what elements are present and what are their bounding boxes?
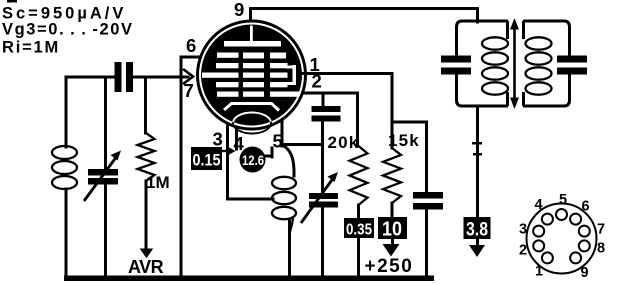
- svg-text:0.35: 0.35: [346, 222, 372, 239]
- svg-text:6: 6: [581, 199, 589, 215]
- svg-text:1: 1: [535, 264, 543, 280]
- svg-text:20k: 20k: [328, 133, 360, 152]
- svg-text:3.8: 3.8: [466, 220, 488, 241]
- svg-text:7: 7: [184, 80, 194, 101]
- svg-text:15k: 15k: [388, 131, 420, 150]
- svg-text:AVR: AVR: [128, 257, 164, 277]
- svg-text:8: 8: [597, 241, 605, 257]
- svg-text:10: 10: [382, 219, 402, 241]
- svg-text:9: 9: [580, 265, 588, 281]
- svg-text:9: 9: [234, 0, 244, 20]
- svg-text:3: 3: [213, 129, 223, 150]
- svg-text:0.15: 0.15: [193, 151, 221, 170]
- svg-text:+250: +250: [365, 256, 414, 277]
- svg-text:Ri=1M: Ri=1M: [2, 39, 60, 57]
- svg-text:6: 6: [186, 35, 196, 56]
- svg-text:5: 5: [273, 131, 283, 152]
- svg-text:1M: 1M: [146, 173, 170, 192]
- svg-text:2: 2: [312, 71, 322, 92]
- svg-text:Vg3=0...-20V: Vg3=0...-20V: [2, 21, 134, 39]
- svg-text:7: 7: [597, 222, 605, 238]
- svg-text:3: 3: [519, 222, 527, 238]
- svg-text:12.6: 12.6: [242, 152, 264, 168]
- svg-text:2: 2: [519, 243, 527, 259]
- svg-text:5: 5: [559, 192, 567, 208]
- svg-text:4: 4: [534, 197, 542, 213]
